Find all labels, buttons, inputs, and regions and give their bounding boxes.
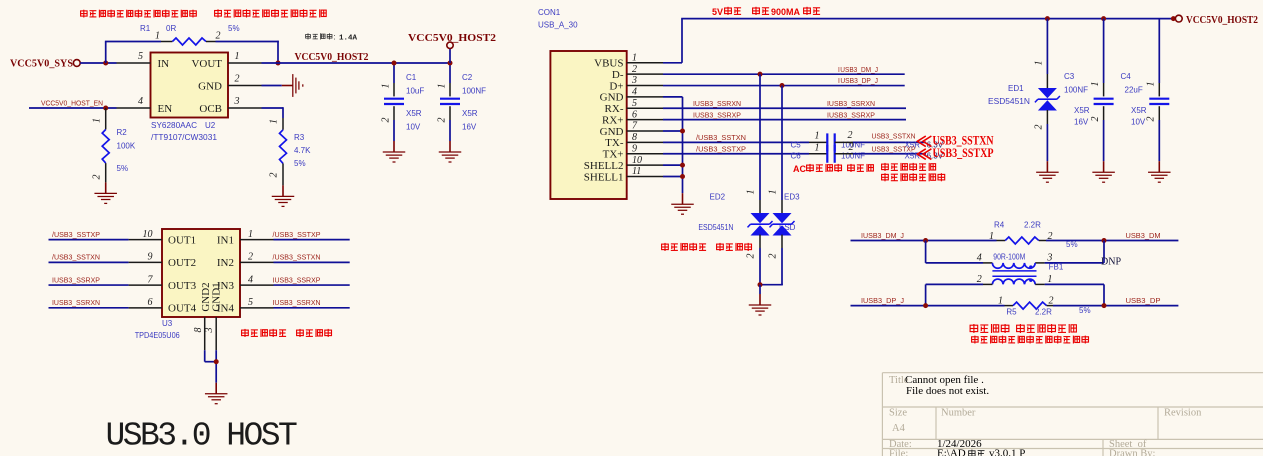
svg-text:2: 2	[848, 130, 853, 141]
ground below ED1	[1046, 161, 1048, 172]
wire top power rail	[681, 18, 1173, 20]
wire pin10 to bus	[663, 164, 683, 166]
svg-text:/USB3_SSTXN: /USB3_SSTXN	[696, 133, 746, 142]
svg-text:/USB3_SSTXN: /USB3_SSTXN	[273, 253, 321, 262]
svg-text:USB3_DM: USB3_DM	[1126, 231, 1161, 240]
annotation ESD protection red text	[662, 243, 707, 251]
svg-text:SHELL2: SHELL2	[584, 160, 624, 172]
svg-text:/USB3_SSTXN: /USB3_SSTXN	[52, 253, 100, 262]
svg-text:2: 2	[216, 31, 221, 42]
svg-text:2: 2	[248, 252, 253, 263]
wire USB3_DP_J row	[851, 305, 1005, 307]
svg-text:8: 8	[632, 132, 637, 143]
wire RX- net	[663, 107, 906, 109]
svg-text:5V: 5V	[712, 7, 723, 17]
svg-text:C6: C6	[791, 152, 802, 161]
svg-text:File does not exist.: File does not exist.	[906, 385, 989, 397]
svg-text:X5R: X5R	[1131, 106, 1147, 115]
svg-text::: :	[334, 33, 336, 42]
svg-text:SHELL1: SHELL1	[584, 171, 624, 183]
wire DM to FB1 left	[925, 241, 927, 263]
wire U3 gnd elbow	[204, 350, 206, 362]
svg-text:5: 5	[248, 297, 253, 308]
svg-text:IUSB3_SSRXN: IUSB3_SSRXN	[273, 298, 321, 307]
svg-text:IUSB3_SSRXN: IUSB3_SSRXN	[693, 99, 741, 108]
node junction D- ED2	[758, 72, 763, 77]
svg-text:9: 9	[632, 143, 637, 154]
svg-text:2: 2	[1146, 117, 1157, 122]
wire ED2 vertical	[759, 74, 761, 200]
svg-text:10uF: 10uF	[406, 87, 424, 96]
svg-text:USB3_SSTXN: USB3_SSTXN	[872, 132, 916, 141]
svg-text:IUSB3_DM_J: IUSB3_DM_J	[861, 231, 904, 240]
wire ED1 vertical bottom	[1046, 110, 1048, 124]
CON1 pin 1 VBUS	[627, 62, 663, 64]
wire D+ net	[663, 85, 905, 87]
wire R1 top right	[216, 41, 279, 43]
svg-text:1: 1	[815, 131, 820, 142]
svg-text:GND1: GND1	[210, 282, 222, 311]
svg-text:2: 2	[1034, 125, 1045, 130]
svg-text:5: 5	[632, 98, 637, 109]
node junction U3 gnd	[214, 359, 219, 364]
capacitor C3	[1103, 19, 1105, 83]
svg-text:GND: GND	[600, 126, 624, 138]
CON1 pin 4 GND	[627, 96, 663, 98]
svg-text:90R-100M: 90R-100M	[993, 253, 1025, 262]
svg-text:1: 1	[989, 231, 994, 242]
annotation output current text	[306, 33, 332, 39]
U3 pin 10 OUT1	[49, 239, 129, 241]
svg-text:IUSB3_SSRXP: IUSB3_SSRXP	[273, 275, 321, 284]
svg-text:2: 2	[437, 118, 448, 123]
wire pin11 to bus	[663, 176, 683, 178]
svg-text:1: 1	[815, 143, 820, 154]
svg-text:3: 3	[234, 96, 240, 107]
wire TX+ to C6	[663, 153, 809, 155]
svg-text:GND: GND	[600, 92, 624, 104]
svg-text:1: 1	[248, 229, 253, 240]
U2 pin 1 VOUT	[228, 62, 262, 64]
svg-text:X5R: X5R	[462, 109, 478, 118]
power port VCC5V0_HOST2 right	[1175, 15, 1182, 22]
svg-text:1: 1	[998, 296, 1003, 307]
svg-text:IUSB3_SSRXP: IUSB3_SSRXP	[827, 110, 875, 119]
svg-text:1: 1	[768, 190, 779, 195]
svg-text:10: 10	[143, 229, 153, 240]
U2 pin 4 EN	[117, 107, 151, 109]
svg-text:E:\AD: E:\AD	[937, 448, 966, 456]
svg-text:22uF: 22uF	[1125, 86, 1143, 95]
svg-text:4.7K: 4.7K	[294, 146, 311, 155]
svg-text:16V: 16V	[462, 123, 477, 132]
svg-text:2: 2	[746, 254, 757, 259]
svg-text:/USB3_SSTXP: /USB3_SSTXP	[696, 145, 746, 154]
svg-text:OUT4: OUT4	[168, 303, 197, 315]
svg-text:1: 1	[1090, 82, 1101, 87]
ground below C1	[393, 141, 395, 152]
node junction rail-ED1	[1045, 16, 1050, 21]
svg-text:C1: C1	[406, 73, 417, 82]
svg-text:AC: AC	[793, 164, 806, 174]
svg-text:DNP: DNP	[1101, 257, 1121, 268]
wire ED2 lower	[759, 235, 761, 248]
wire RX+ net	[663, 119, 906, 121]
svg-text:2: 2	[381, 118, 392, 123]
wire VBUS to top rail	[663, 62, 682, 64]
U3 pin 3 GND1 stub	[215, 317, 217, 350]
CON1 pin 2 D-	[627, 73, 663, 75]
capacitor C6	[826, 145, 828, 163]
node junction at C2	[448, 61, 453, 66]
svg-text:10V: 10V	[406, 123, 421, 132]
svg-text:1: 1	[632, 53, 637, 64]
svg-text:1: 1	[381, 84, 392, 89]
wire R5 right	[1053, 305, 1178, 307]
node junction gnd bus pin10	[680, 163, 685, 168]
inductor FB1 bottom winding	[992, 279, 1035, 284]
inductor FB1 top winding	[992, 263, 1035, 268]
svg-text:3: 3	[631, 75, 637, 86]
svg-text:900MA: 900MA	[771, 7, 801, 17]
svg-text:EN: EN	[158, 103, 173, 115]
svg-text:1: 1	[269, 119, 280, 124]
svg-text:16V: 16V	[1074, 118, 1089, 127]
svg-text:TPD4E05U06: TPD4E05U06	[135, 331, 181, 340]
wire EN net	[29, 107, 117, 109]
capacitor C4	[1158, 19, 1160, 83]
svg-text:SY6280AAC: SY6280AAC	[151, 121, 197, 130]
title block frame	[882, 372, 1263, 374]
svg-text:1: 1	[1034, 61, 1045, 66]
svg-text:VCC5V0_HOST_EN: VCC5V0_HOST_EN	[41, 99, 103, 108]
svg-text:VCC5V0_HOST2: VCC5V0_HOST2	[408, 33, 496, 44]
U2 pin 3 OCB	[228, 107, 262, 109]
svg-text:4: 4	[632, 87, 637, 98]
svg-text:USB_A_30: USB_A_30	[538, 21, 578, 30]
CON1 pin 8 TX-	[627, 141, 663, 143]
svg-text:4: 4	[977, 253, 982, 264]
svg-text:2: 2	[235, 74, 240, 85]
ground below C3	[1103, 161, 1105, 172]
svg-text:D-: D-	[612, 69, 624, 81]
svg-text:5%: 5%	[1066, 240, 1078, 249]
svg-text:0R: 0R	[166, 24, 176, 33]
wire TX- to C5	[663, 141, 809, 143]
svg-text:IUSB3_SSRXN: IUSB3_SSRXN	[52, 298, 100, 307]
svg-text:100K: 100K	[117, 142, 136, 151]
capacitor C2	[449, 63, 451, 83]
svg-text:1: 1	[235, 51, 240, 62]
CON1 pin 6 RX+	[627, 119, 663, 121]
svg-text:ED3: ED3	[784, 193, 800, 202]
wire DP to FB1 left	[925, 284, 927, 305]
svg-text:Number: Number	[941, 408, 976, 419]
resistor R3	[282, 118, 284, 130]
svg-text:C5: C5	[791, 141, 802, 150]
resistor R1	[161, 41, 172, 43]
svg-text:R5: R5	[1006, 308, 1017, 317]
wire ED1 vertical top	[1046, 19, 1048, 74]
svg-text:2: 2	[1090, 117, 1101, 122]
svg-text:ED1: ED1	[1008, 84, 1024, 93]
svg-text:IUSB3_DP_J: IUSB3_DP_J	[861, 296, 904, 305]
resistor R4	[997, 240, 1006, 242]
svg-text:Size: Size	[889, 408, 907, 419]
node junction at VOUT	[276, 61, 281, 66]
ground below R2	[105, 182, 107, 193]
svg-text:RX+: RX+	[602, 114, 623, 126]
svg-text:1: 1	[437, 84, 448, 89]
svg-text:8: 8	[193, 328, 204, 333]
svg-text:File:: File:	[889, 449, 908, 456]
CON1 pin 5 RX-	[627, 107, 663, 109]
ground below U3	[215, 383, 217, 394]
ground below C4	[1158, 161, 1160, 172]
connector CON1 USB_A_30 body	[550, 51, 626, 199]
annotation U3 ESD red text	[242, 329, 287, 337]
svg-text:2: 2	[768, 254, 779, 259]
svg-text:v3.0.1 P: v3.0.1 P	[989, 448, 1025, 456]
svg-text:VOUT: VOUT	[191, 58, 222, 70]
svg-text:OUT2: OUT2	[168, 257, 196, 269]
U3 pin 6 OUT4	[49, 307, 129, 309]
annotation signal quality red text	[882, 163, 936, 171]
svg-text:D+: D+	[609, 80, 623, 92]
capacitor C1	[393, 63, 395, 83]
wire USB3_DM_J row	[851, 240, 997, 242]
wire VCC5V0_SYS to IN pin	[80, 62, 116, 64]
svg-text:2.2R: 2.2R	[1035, 308, 1052, 317]
harness entry USB3_SSTXN	[917, 136, 931, 147]
svg-text:USB3.0 HOST: USB3.0 HOST	[106, 418, 298, 455]
ground below R3	[282, 185, 284, 196]
svg-text:/TT9107/CW3031: /TT9107/CW3031	[151, 133, 218, 142]
annotation common mode red text	[970, 324, 1009, 333]
U2 pin 2 GND	[228, 85, 262, 87]
svg-text:OUT1: OUT1	[168, 234, 196, 246]
node junction D+ ED3	[780, 83, 785, 88]
svg-text:2.2R: 2.2R	[1024, 221, 1041, 230]
node junction at EN / R2	[103, 106, 108, 111]
CON1 pin 9 TX+	[627, 153, 663, 155]
svg-text:IUSB3_SSRXP: IUSB3_SSRXP	[693, 110, 741, 119]
wire R1 right vertical	[277, 41, 279, 63]
U3 pin 2 IN2	[274, 261, 350, 263]
node junction rail-C4	[1171, 16, 1176, 21]
inductor FB1 core	[992, 270, 1036, 272]
wire U2 GND pin to ground	[262, 85, 282, 87]
node junction DM right	[1102, 238, 1107, 243]
svg-text:6: 6	[632, 109, 637, 120]
resistor R2	[105, 108, 107, 130]
svg-text:1.4A: 1.4A	[339, 35, 358, 43]
wire R4 right	[1046, 240, 1178, 242]
svg-text:4: 4	[138, 96, 143, 107]
node junction ESD gnd	[758, 282, 763, 287]
svg-text:100NF: 100NF	[1064, 86, 1088, 95]
harness entry USB3_SSTXP	[917, 149, 931, 160]
wire DM to FB1 right	[1103, 241, 1105, 263]
svg-text:5%: 5%	[117, 164, 129, 173]
svg-text:1: 1	[746, 190, 757, 195]
svg-text:TX+: TX+	[603, 149, 624, 161]
wire R1 top left	[105, 41, 161, 43]
svg-text:RX-: RX-	[605, 103, 624, 115]
svg-text:5: 5	[138, 51, 143, 62]
svg-text:X5R: X5R	[1074, 106, 1090, 115]
U3 pin 7 OUT3	[49, 284, 129, 286]
wire to ESD ground	[759, 285, 761, 294]
node junction DM left	[923, 238, 928, 243]
svg-text:6: 6	[148, 297, 153, 308]
svg-text:Drawn By:: Drawn By:	[1109, 449, 1155, 456]
svg-text:10V: 10V	[1131, 118, 1146, 127]
wire ED3 elbow to ED2	[781, 283, 783, 286]
svg-text:R3: R3	[294, 133, 305, 142]
annotation red text 2	[215, 9, 327, 17]
svg-text:C2: C2	[462, 73, 473, 82]
U3 pin 5 IN4	[274, 307, 350, 309]
svg-text:IUSB3_DM_J: IUSB3_DM_J	[838, 65, 878, 74]
node junction DP right	[1102, 303, 1107, 308]
U3 pin 8 GND2 stub	[204, 317, 206, 350]
U3 pin 9 OUT2	[49, 261, 129, 263]
wire pin7 to bus	[663, 130, 683, 132]
resistor R5	[1005, 305, 1014, 307]
svg-text:VCC5V0_SYS: VCC5V0_SYS	[10, 59, 73, 70]
node junction rail-C3	[1101, 16, 1106, 21]
node junction gnd bus pin11	[680, 174, 685, 179]
svg-text:4: 4	[248, 274, 253, 285]
svg-text:1: 1	[1146, 82, 1157, 87]
svg-text:C3: C3	[1064, 72, 1075, 81]
svg-text:100NF: 100NF	[841, 152, 865, 161]
svg-text:IUSB3_DP_J: IUSB3_DP_J	[838, 76, 878, 85]
svg-text:TX-: TX-	[605, 137, 624, 149]
svg-text:2: 2	[977, 274, 982, 285]
svg-text:9: 9	[148, 252, 153, 263]
wire GND pin4 to bus	[663, 96, 683, 98]
svg-text:IN1: IN1	[217, 234, 234, 246]
node junction at C1	[392, 61, 397, 66]
svg-text:R1: R1	[140, 24, 151, 33]
node junction at R1 left leg	[103, 61, 108, 66]
node junction DP left	[923, 303, 928, 308]
svg-text:2: 2	[269, 173, 280, 178]
svg-text:IN: IN	[158, 58, 170, 70]
ground below C2	[449, 141, 451, 152]
svg-text:IUSB3_SSRXP: IUSB3_SSRXP	[52, 275, 100, 284]
U2 pin 5 IN	[117, 62, 151, 64]
op-amp U2 regulator SY6280AAC body	[151, 53, 229, 118]
svg-text:5%: 5%	[228, 24, 240, 33]
capacitor C5	[826, 133, 828, 151]
svg-text:ED2: ED2	[710, 193, 726, 202]
wire R1 left vertical	[105, 42, 107, 64]
svg-text:ESD5451N: ESD5451N	[988, 97, 1030, 106]
svg-text:C4: C4	[1121, 72, 1132, 81]
CON1 pin 3 D+	[627, 85, 663, 87]
svg-text:IN2: IN2	[217, 257, 234, 269]
wire C6 to harness	[835, 153, 853, 155]
wire ED3 vertical	[781, 86, 783, 200]
svg-text:OUT3: OUT3	[168, 280, 197, 292]
svg-text:R2: R2	[117, 128, 128, 137]
wire ED3 lower	[781, 235, 783, 248]
svg-text:/USB3_SSTXP: /USB3_SSTXP	[52, 230, 100, 239]
svg-text:/USB3_SSTXP: /USB3_SSTXP	[273, 230, 321, 239]
op-amp U3 TPD4E05U06 body	[162, 229, 240, 317]
wire D- net	[663, 73, 905, 75]
node junction gnd bus pin7	[680, 129, 685, 134]
ground at CON1 gnd bus	[682, 193, 684, 204]
CON1 pin 7 GND	[627, 130, 663, 132]
annotation common mode red text 2	[972, 336, 1089, 344]
wire U3 pin3 down	[215, 350, 217, 383]
svg-text:CON1: CON1	[538, 8, 561, 17]
CON1 pin 11 SHELL1	[627, 176, 663, 178]
svg-text:2: 2	[92, 175, 103, 180]
U3 pin 4 IN3	[274, 284, 350, 286]
svg-text:1: 1	[1047, 274, 1052, 285]
U3 pin 1 IN1	[274, 239, 350, 241]
svg-text:ESD5451N: ESD5451N	[698, 223, 733, 232]
CON1 pin 10 SHELL2	[627, 164, 663, 166]
svg-text:5%: 5%	[294, 159, 306, 168]
svg-text:100NF: 100NF	[462, 87, 486, 96]
svg-text:Revision: Revision	[1164, 408, 1202, 419]
svg-text:VBUS: VBUS	[594, 58, 623, 70]
wire VOUT to VCC5V0_HOST2 rail	[262, 62, 451, 64]
ground at U2 GND pin	[282, 85, 293, 87]
svg-text:USB3_DP: USB3_DP	[1126, 296, 1161, 305]
wire C5 to harness	[835, 141, 853, 143]
svg-text:A4: A4	[892, 423, 906, 434]
svg-text:1: 1	[155, 31, 160, 42]
wire OCB to R3	[262, 107, 284, 109]
svg-text:U2: U2	[205, 121, 216, 130]
svg-text:3: 3	[204, 328, 215, 334]
svg-text:10: 10	[632, 155, 642, 166]
svg-text:2: 2	[1049, 296, 1054, 307]
svg-text:IUSB3_SSRXN: IUSB3_SSRXN	[827, 99, 875, 108]
svg-text:GND: GND	[198, 81, 222, 93]
svg-text:11: 11	[632, 166, 641, 177]
wire DP to FB1 right	[1103, 284, 1105, 305]
svg-text:1: 1	[92, 118, 103, 123]
power port VCC5V0_HOST2 top	[449, 48, 451, 63]
svg-text:R4: R4	[994, 221, 1005, 230]
svg-text:5%: 5%	[1079, 306, 1091, 315]
svg-text:2: 2	[632, 64, 637, 75]
ground below ESD diodes	[759, 294, 761, 305]
svg-text:FB1: FB1	[1049, 263, 1064, 272]
svg-text:U3: U3	[162, 319, 173, 328]
svg-text:X5R: X5R	[406, 109, 422, 118]
svg-text:VCC5V0_HOST2: VCC5V0_HOST2	[1186, 15, 1258, 26]
svg-text:OCB: OCB	[199, 103, 222, 115]
svg-text:VCC5V0_HOST2: VCC5V0_HOST2	[295, 52, 369, 63]
annotation red text 1	[81, 10, 197, 18]
svg-text:USB3_SSTXP: USB3_SSTXP	[933, 145, 994, 160]
